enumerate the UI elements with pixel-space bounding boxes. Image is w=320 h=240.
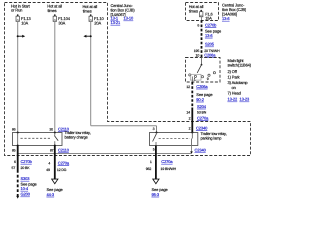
main light switch internals [189, 57, 216, 81]
svg-text:times: times [83, 8, 92, 13]
main light switch dashed box [186, 58, 221, 83]
svg-text:13-23: 13-23 [240, 97, 251, 102]
node: See page 13-6 [205, 29, 222, 38]
svg-text:4: 4 [48, 161, 50, 165]
node: See page 44-3 [47, 187, 64, 197]
svg-text:G200: G200 [21, 192, 31, 197]
svg-text:or Run: or Run [11, 8, 22, 13]
wire fuse F1.104 down to relay pin 30 [54, 21, 56, 132]
svg-text:S303: S303 [21, 176, 31, 181]
svg-text:5: 5 [153, 148, 155, 152]
wire label 14 / 53 BN [186, 110, 206, 114]
node: Hot at all times label (col2) [47, 4, 62, 13]
pin 6 connector C270b (right column) [197, 22, 217, 27]
fuse F1.6 15A [200, 10, 213, 21]
wire from fuse F1.6 down (thick dashed) [201, 17, 203, 20]
svg-text:2: 2 [189, 126, 191, 130]
svg-text:C2110: C2110 [58, 148, 70, 153]
svg-text:2) Off: 2) Off [228, 69, 238, 74]
wire label 962 / 19 BN/WH [146, 167, 177, 171]
svg-text:49: 49 [46, 168, 50, 172]
svg-text:6: 6 [197, 23, 199, 27]
wire parking lamp relay output down (thick) [155, 146, 157, 180]
node: off-page hollow arrow (battery charge out) [52, 179, 58, 184]
svg-text:20 BK: 20 BK [21, 166, 31, 170]
svg-text:C206a: C206a [196, 84, 208, 89]
node: See page 10-4 [21, 181, 38, 191]
svg-text:57: 57 [12, 166, 16, 170]
svg-text:85: 85 [12, 149, 16, 153]
svg-text:44-3: 44-3 [47, 192, 55, 197]
svg-text:1) Park: 1) Park [228, 74, 240, 79]
svg-text:12: 12 [186, 85, 190, 89]
svg-text:C270a: C270a [197, 115, 209, 120]
svg-text:2: 2 [189, 116, 191, 120]
svg-text:14: 14 [186, 110, 190, 114]
svg-text:3: 3 [153, 127, 155, 131]
svg-text:10: 10 [196, 53, 200, 57]
svg-text:20A: 20A [94, 20, 101, 25]
wire label 195 / 20 TN/WH [194, 49, 220, 53]
svg-text:962: 962 [146, 167, 152, 171]
wire branch arrow right on col1 [17, 35, 26, 38]
svg-text:C2340: C2340 [196, 125, 208, 130]
wire relay pin 87 down (thick) [54, 146, 56, 180]
svg-text:1: 1 [194, 77, 196, 81]
wire fuse F1.13 down to relay pin 86 [17, 21, 19, 132]
svg-text:9: 9 [207, 77, 209, 81]
relay: trailer tow relay parking lamp [150, 132, 198, 146]
svg-text:10-4: 10-4 [21, 186, 29, 191]
svg-text:90-2: 90-2 [196, 97, 204, 102]
wire fuse F1.10 horizontal run to parking lamp relay pin 3 [91, 125, 157, 127]
wire switch output down (thick dashed) [191, 77, 193, 83]
svg-text:10A: 10A [21, 20, 28, 25]
wire fuse F1.10 down [90, 21, 92, 125]
svg-text:C270b: C270b [21, 159, 33, 164]
svg-text:battery charge: battery charge [65, 134, 88, 139]
node: See page 95-3 [152, 187, 169, 197]
wire relay pin 85 down to C270b (thick) [17, 146, 19, 171]
wire label 49 / 12 DG [46, 168, 67, 172]
node: Hot at all times label (right box) [189, 4, 204, 13]
pin 2 connector C2340 (relay coil) [189, 125, 208, 130]
node: ground path arrow [16, 196, 19, 199]
svg-text:C2340: C2340 [195, 148, 207, 153]
svg-text:30A: 30A [58, 20, 65, 25]
node: Hot at all times label (col3) [83, 4, 98, 13]
pin 4 connector C270a (bottom mid) [48, 160, 70, 165]
svg-text:12 DG: 12 DG [57, 168, 67, 172]
svg-text:13-22: 13-22 [228, 97, 239, 102]
node: Main light switch label list [228, 58, 252, 101]
svg-text:95-3: 95-3 [152, 192, 160, 197]
svg-text:15A: 15A [205, 16, 212, 21]
Central Junction Box CJB dashed outline (L-shaped) [5, 3, 251, 156]
svg-text:6: 6 [14, 160, 16, 164]
svg-text:parking lamp: parking lamp [201, 136, 222, 141]
node: Central Junction Box (CJB) [14A067] label [111, 3, 136, 25]
CJB auxiliary dashed box (top right) [186, 3, 219, 21]
node: See page 90-2 [196, 92, 213, 102]
svg-text:13-21: 13-21 [111, 20, 122, 25]
svg-text:7) Head: 7) Head [228, 90, 241, 95]
node: Trailer tow relay battery charge label [65, 130, 91, 139]
relay: trailer tow relay battery charge [13, 132, 63, 147]
svg-text:C270a: C270a [58, 160, 70, 165]
svg-text:86: 86 [12, 127, 16, 131]
svg-text:1: 1 [150, 160, 152, 164]
svg-text:C270a: C270a [161, 159, 173, 164]
svg-text:times: times [48, 8, 57, 13]
svg-text:times: times [189, 8, 198, 13]
svg-text:195: 195 [194, 49, 200, 53]
svg-text:19 BN/WH: 19 BN/WH [161, 167, 177, 171]
svg-text:C206a: C206a [204, 52, 216, 57]
wire ground bus [18, 153, 192, 155]
fuse F1.104 30A [53, 14, 71, 25]
svg-text:13-6: 13-6 [222, 16, 230, 21]
svg-text:13-10: 13-10 [124, 16, 135, 21]
fuse F1.10 20A [89, 14, 105, 25]
svg-text:87: 87 [50, 149, 54, 153]
svg-text:switch(11B64): switch(11B64) [228, 63, 252, 68]
pin 1 connector C270a (bottom right) [150, 159, 174, 164]
svg-text:53 BN: 53 BN [197, 110, 207, 114]
pin 2 connector C270a [189, 115, 209, 120]
svg-text:on: on [232, 85, 236, 90]
fuse F1.13 10A [16, 14, 32, 25]
svg-text:30: 30 [49, 127, 53, 131]
pin 12 connector C206a [186, 84, 208, 89]
wire relay coil ground stub with arrow [190, 146, 193, 155]
pin 6 connector C270b (bottom left) [14, 159, 33, 164]
svg-text:13-6: 13-6 [205, 33, 213, 38]
node: Hot in Start or Run label [11, 3, 31, 12]
svg-text:S204: S204 [197, 104, 207, 109]
svg-text:C270b: C270b [205, 22, 217, 27]
pin 10 connector C206a [196, 52, 217, 57]
svg-text:S205: S205 [205, 42, 215, 47]
node: off-page hollow arrow (parking lamp out) [153, 179, 159, 184]
wire label 57 / 20 BK [12, 166, 31, 170]
node: Trailer tow relay parking lamp label [201, 131, 227, 141]
wire branch arrow left on col3 [83, 35, 91, 38]
node: Central Junction Box (CJB) [14A066] label (right) [222, 3, 247, 22]
